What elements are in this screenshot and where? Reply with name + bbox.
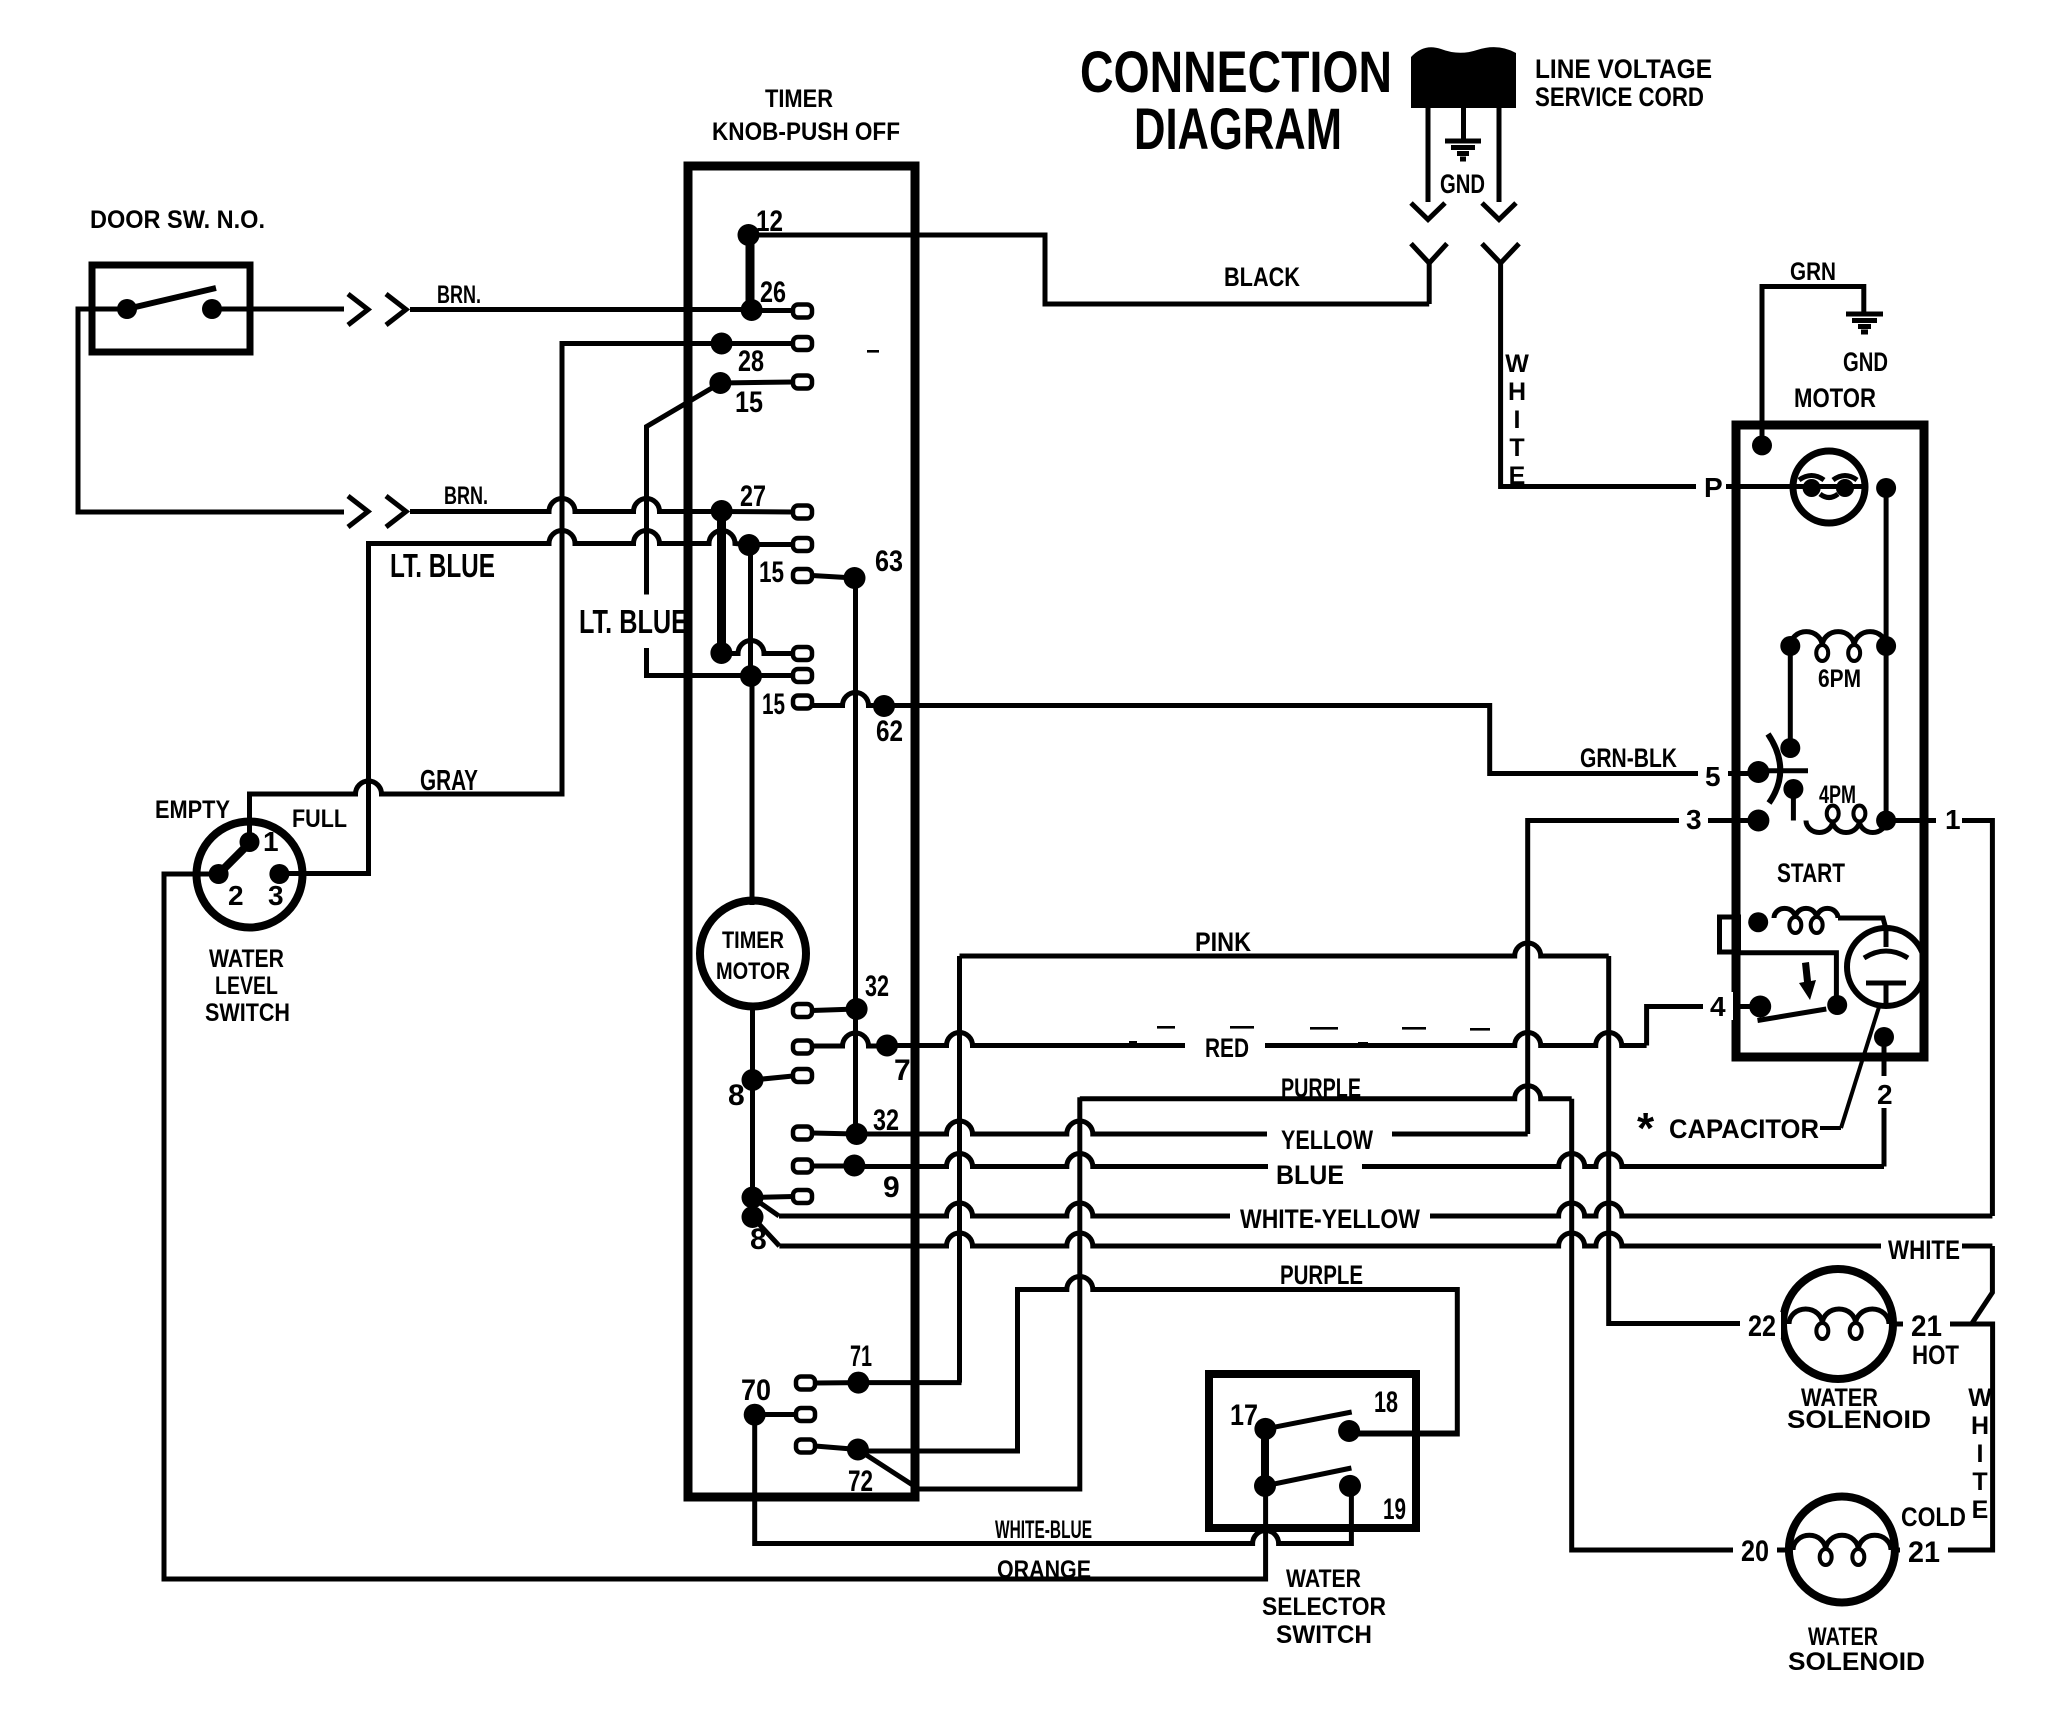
timer box xyxy=(688,166,915,1497)
door switch contact left xyxy=(117,299,137,319)
svg-text:FULL: FULL xyxy=(292,805,347,833)
terminal 71 xyxy=(796,1340,962,1394)
selector arm 17-18 xyxy=(1265,1412,1351,1429)
svg-text:BRN.: BRN. xyxy=(437,281,481,309)
terminal 32 lower xyxy=(793,1104,899,1145)
svg-text:SOLENOID: SOLENOID xyxy=(1788,1648,1925,1676)
wire 72-diagonal to PURPLE upper riser xyxy=(858,1097,1080,1489)
start circle bottom junction xyxy=(1874,1027,1894,1047)
label PINK xyxy=(1195,927,1251,957)
terminal 28 xyxy=(711,333,812,379)
svg-text:20: 20 xyxy=(1741,1535,1769,1568)
label GRN-BLK xyxy=(1580,743,1677,773)
svg-text:WATER: WATER xyxy=(1808,1623,1878,1651)
svg-text:21: 21 xyxy=(1911,1310,1942,1343)
wire 15-diagonal to LT BLUE stub xyxy=(647,383,749,676)
label GND cord xyxy=(1440,169,1485,199)
label CAPACITOR xyxy=(1637,1104,1819,1153)
svg-text:1: 1 xyxy=(263,826,279,857)
label 18 xyxy=(1374,1386,1398,1419)
svg-text:H: H xyxy=(1971,1412,1989,1440)
svg-text:E: E xyxy=(1972,1496,1989,1524)
svg-text:15: 15 xyxy=(759,556,784,589)
label EMPTY xyxy=(155,796,230,824)
svg-text:6PM: 6PM xyxy=(1818,665,1861,693)
water level switch contact 2 xyxy=(209,864,229,884)
wire hot 21 to white xyxy=(1889,1324,1993,1550)
start switch moving contact xyxy=(1827,995,1847,1015)
terminal 9 xyxy=(793,1155,900,1205)
terminal 62 tab xyxy=(762,688,884,721)
switch contact 4pm-side xyxy=(1783,779,1803,821)
label 21 hot gap xyxy=(1903,1310,1950,1343)
label GRAY xyxy=(420,765,478,797)
selector link 17-17 xyxy=(1261,1429,1269,1486)
wire RED 7 to motor 4 xyxy=(887,1007,1757,1046)
svg-text:BLUE: BLUE xyxy=(1276,1160,1344,1190)
connector chevrons BRN2 xyxy=(348,496,406,527)
label WHITE-YELLOW gap xyxy=(1230,1200,1430,1234)
svg-text:BLACK: BLACK xyxy=(1224,262,1300,292)
label contact 1 xyxy=(263,826,279,857)
label GRN xyxy=(1790,258,1836,286)
label RED gap xyxy=(1185,1033,1265,1063)
terminal 63 xyxy=(844,545,904,589)
arrowhead line prong right xyxy=(1482,203,1516,220)
4PM coil xyxy=(1806,806,1896,833)
svg-text:PURPLE: PURPLE xyxy=(1280,1260,1363,1290)
start relay line xyxy=(1738,953,1836,1000)
label YELLOW gap xyxy=(1267,1124,1392,1155)
capacitor pointer xyxy=(1820,1007,1879,1128)
door switch contact right xyxy=(202,299,222,319)
label PURPLE lower xyxy=(1280,1260,1363,1290)
svg-text:28: 28 xyxy=(738,345,764,378)
svg-text:3: 3 xyxy=(268,880,284,911)
motor box xyxy=(1736,425,1924,1057)
start switch pivot arrow xyxy=(1799,962,1816,1000)
svg-text:7: 7 xyxy=(894,1054,911,1087)
water level switch contact 1 xyxy=(240,832,260,852)
svg-text:4PM: 4PM xyxy=(1819,781,1856,809)
label WHITE-BLUE xyxy=(995,1516,1092,1544)
link 12-26 xyxy=(746,235,755,310)
terminal B xyxy=(710,641,812,664)
label BRN upper xyxy=(437,281,481,309)
svg-text:W: W xyxy=(1505,350,1529,378)
label 19 xyxy=(1383,1493,1406,1526)
label PURPLE upper xyxy=(1281,1073,1361,1103)
svg-text:HOT: HOT xyxy=(1912,1340,1959,1370)
motor terminal 5 xyxy=(1747,761,1769,783)
ground symbol service cord xyxy=(1445,141,1481,159)
start switch circle xyxy=(1847,928,1925,1006)
terminal 12 xyxy=(738,205,784,246)
svg-text:I: I xyxy=(1514,406,1521,434)
link timer motor down xyxy=(750,1005,755,1217)
label GND motor xyxy=(1843,347,1888,377)
label WATER SELECTOR SWITCH xyxy=(1262,1565,1386,1649)
svg-text:26: 26 xyxy=(760,276,786,309)
svg-text:GRN-BLK: GRN-BLK xyxy=(1580,743,1677,773)
label LINE VOLTAGE SERVICE CORD xyxy=(1535,54,1712,112)
svg-text:LT. BLUE: LT. BLUE xyxy=(390,547,495,584)
svg-text:I: I xyxy=(1977,1440,1984,1468)
title CONNECTION DIAGRAM xyxy=(1080,40,1392,162)
start switch blade xyxy=(1758,1009,1827,1021)
label contact 3 xyxy=(268,880,284,911)
svg-text:DIAGRAM: DIAGRAM xyxy=(1134,97,1342,162)
svg-text:COLD: COLD xyxy=(1901,1502,1966,1532)
wire WHITE-BLUE 70 to 19 xyxy=(755,1415,1352,1544)
wire BLUE 9 to motor 2 xyxy=(854,1037,1884,1167)
label HOT xyxy=(1912,1340,1959,1370)
motor grn dot xyxy=(1752,435,1772,455)
label 5 gap xyxy=(1698,758,1728,792)
svg-text:WHITE-BLUE: WHITE-BLUE xyxy=(995,1516,1092,1544)
svg-text:15: 15 xyxy=(735,386,763,419)
svg-text:H: H xyxy=(1508,378,1526,406)
svg-text:19: 19 xyxy=(1383,1493,1406,1526)
label WHITE gap xyxy=(1881,1234,1962,1265)
svg-text:*: * xyxy=(1637,1104,1655,1153)
link connector to coils xyxy=(1884,488,1889,821)
door switch box xyxy=(92,265,250,352)
svg-text:GRAY: GRAY xyxy=(420,765,478,797)
terminal 26 xyxy=(741,276,812,321)
motor terminal 4 xyxy=(1749,996,1771,1018)
terminal 15A lt-blue xyxy=(738,534,812,556)
terminal 70 xyxy=(741,1374,815,1426)
label WATER SOLENOID hot xyxy=(1787,1384,1931,1434)
wire WHITE 8 to hot solenoid 21 xyxy=(753,1217,1993,1324)
svg-text:63: 63 xyxy=(875,545,903,578)
receptacle arrow black xyxy=(1411,244,1447,304)
wire WHITE cord-to-P xyxy=(1501,263,1866,486)
wire 62 to GRN-BLK motor 5 xyxy=(884,706,1757,774)
water level switch arm xyxy=(219,842,251,875)
stray scan dashes xyxy=(867,350,1490,1045)
svg-text:GRN: GRN xyxy=(1790,258,1836,286)
motor switch arc xyxy=(1768,734,1780,803)
label 4 gap xyxy=(1703,991,1733,1022)
wire BRN lower to timer 27 xyxy=(410,499,719,512)
capacitor symbol in start circle xyxy=(1864,929,1908,1005)
6PM coil xyxy=(1780,632,1896,661)
connector chevrons BRN1 xyxy=(348,294,406,325)
svg-text:62: 62 xyxy=(876,715,903,748)
water level switch circle xyxy=(197,822,303,928)
selector arm 17-19 xyxy=(1265,1468,1351,1486)
wire water-switch 2 down-left then ORANGE bottom xyxy=(164,874,1266,1579)
svg-text:12: 12 xyxy=(756,205,783,238)
svg-text:T: T xyxy=(1972,1468,1987,1496)
svg-text:5: 5 xyxy=(1705,761,1721,792)
svg-text:32: 32 xyxy=(865,970,889,1003)
svg-text:LINE VOLTAGE: LINE VOLTAGE xyxy=(1535,54,1712,84)
terminal C xyxy=(740,665,812,687)
line voltage service cord plug xyxy=(1411,47,1516,108)
terminal 15 upper xyxy=(709,372,812,419)
label START xyxy=(1777,858,1845,888)
svg-text:EMPTY: EMPTY xyxy=(155,796,230,824)
svg-text:18: 18 xyxy=(1374,1386,1398,1419)
wire LT BLUE contact3 to terminal xyxy=(279,531,745,874)
water selector switch box xyxy=(1209,1374,1416,1528)
hot solenoid circle xyxy=(1783,1269,1893,1379)
wire BRN upper to timer 26 xyxy=(410,307,748,312)
label TIMER KNOB-PUSH OFF xyxy=(712,85,900,146)
svg-text:22: 22 xyxy=(1748,1310,1776,1343)
svg-text:KNOB-PUSH OFF: KNOB-PUSH OFF xyxy=(712,118,900,146)
terminal 32 upper xyxy=(793,970,889,1020)
label COLD xyxy=(1901,1502,1966,1532)
svg-text:DOOR SW. N.O.: DOOR SW. N.O. xyxy=(90,206,265,234)
svg-text:T: T xyxy=(1509,434,1524,462)
svg-text:SOLENOID: SOLENOID xyxy=(1787,1406,1931,1434)
svg-text:MOTOR: MOTOR xyxy=(716,958,790,985)
svg-text:1: 1 xyxy=(1945,804,1961,835)
wire motor 1 to WHITE-YELLOW xyxy=(1886,821,1992,1217)
link C to timer motor xyxy=(750,676,755,905)
terminal 8 mid xyxy=(742,1187,813,1209)
motor connector circle xyxy=(1793,451,1865,523)
svg-text:SELECTOR: SELECTOR xyxy=(1262,1593,1386,1621)
wire PURPLE upper to cold solenoid 20 xyxy=(1080,1086,1790,1550)
svg-text:PURPLE: PURPLE xyxy=(1281,1073,1361,1103)
svg-text:9: 9 xyxy=(883,1171,900,1204)
selector contact 19 xyxy=(1339,1475,1361,1497)
svg-text:72: 72 xyxy=(848,1465,873,1498)
wire GRN ground xyxy=(1762,287,1864,446)
label 21 cold gap xyxy=(1900,1536,1948,1569)
motor junction right of connector xyxy=(1876,478,1896,498)
svg-text:SERVICE CORD: SERVICE CORD xyxy=(1535,82,1704,112)
label WHITE vertical right xyxy=(1968,1384,1992,1524)
wire plug left prong xyxy=(1426,108,1431,202)
label 20 gap xyxy=(1733,1535,1777,1568)
wire door-sw left to BRN2 xyxy=(78,309,344,512)
terminal 27 xyxy=(711,480,812,522)
wire white dash xyxy=(1830,1244,1870,1249)
motor terminal 3 xyxy=(1747,810,1769,832)
svg-text:2: 2 xyxy=(1877,1079,1893,1110)
link 27-down xyxy=(717,511,726,653)
svg-text:2: 2 xyxy=(228,880,244,911)
start connector sub-box xyxy=(1720,917,1739,952)
svg-text:W: W xyxy=(1968,1384,1992,1412)
wire plug middle prong xyxy=(1461,108,1466,139)
wire WHITE-YELLOW 8 to motor 1 xyxy=(753,1198,1993,1217)
svg-text:MOTOR: MOTOR xyxy=(1794,383,1876,413)
door switch arm xyxy=(127,288,216,309)
terminal 72 xyxy=(796,1439,873,1499)
svg-text:TIMER: TIMER xyxy=(722,927,784,954)
link 63-down xyxy=(853,578,858,1134)
svg-text:P: P xyxy=(1704,472,1723,503)
label BLUE gap xyxy=(1268,1156,1362,1190)
label BRN lower xyxy=(444,482,488,510)
svg-text:WHITE-YELLOW: WHITE-YELLOW xyxy=(1240,1204,1420,1234)
switch contact 6pm-side xyxy=(1780,738,1800,758)
label LT. BLUE left xyxy=(390,547,495,584)
wire PINK 71 to hot solenoid 22 xyxy=(960,943,1788,1383)
svg-text:START: START xyxy=(1777,858,1845,888)
label ORANGE xyxy=(997,1556,1091,1584)
wire door-sw right xyxy=(212,307,344,312)
cold solenoid coil xyxy=(1793,1535,1891,1565)
svg-text:SWITCH: SWITCH xyxy=(205,999,290,1027)
selector contact 17 lower xyxy=(1254,1475,1276,1497)
label 17 xyxy=(1230,1399,1258,1432)
label 22 gap xyxy=(1740,1310,1781,1343)
wire plug right prong xyxy=(1497,108,1502,202)
label MOTOR xyxy=(1794,383,1876,413)
wire YELLOW 32 to motor 3 xyxy=(857,821,1757,1135)
svg-text:WATER: WATER xyxy=(209,945,284,973)
label BLACK xyxy=(1224,262,1300,292)
svg-text:17: 17 xyxy=(1230,1399,1258,1432)
label DOOR SW. N.O. xyxy=(90,206,265,234)
label 3 gap xyxy=(1679,804,1708,835)
svg-text:CAPACITOR: CAPACITOR xyxy=(1669,1114,1819,1144)
svg-text:ORANGE: ORANGE xyxy=(997,1556,1091,1584)
terminal 8 lower xyxy=(742,1206,767,1256)
link 6PM to switch xyxy=(1788,646,1793,748)
svg-text:RED: RED xyxy=(1205,1033,1249,1063)
wire GRAY full-contact to 28 xyxy=(250,344,717,842)
label 2 gap xyxy=(1868,1076,1898,1110)
label contact 2 xyxy=(228,880,244,911)
svg-text:GND: GND xyxy=(1843,347,1888,377)
svg-text:CONNECTION: CONNECTION xyxy=(1080,40,1392,105)
receptacle arrow white xyxy=(1482,244,1519,264)
ground symbol motor xyxy=(1846,314,1883,332)
svg-text:3: 3 xyxy=(1686,804,1702,835)
cold solenoid circle xyxy=(1789,1497,1895,1603)
terminal 62 xyxy=(873,695,903,748)
svg-text:SWITCH: SWITCH xyxy=(1276,1621,1372,1649)
svg-text:WHITE: WHITE xyxy=(1888,1235,1960,1265)
svg-text:BRN.: BRN. xyxy=(444,482,488,510)
motor switch bar xyxy=(1760,768,1808,773)
svg-text:LEVEL: LEVEL xyxy=(215,972,278,1000)
wire 72 to PURPLE lower (18) xyxy=(858,1277,1457,1451)
svg-text:TIMER: TIMER xyxy=(765,85,833,113)
label LT. BLUE right xyxy=(579,603,688,640)
selector contact 17 upper xyxy=(1254,1418,1276,1440)
wire BLACK 12-to-cord xyxy=(749,235,1430,304)
link lt-blue down xyxy=(748,545,753,676)
terminal 63 tab xyxy=(759,556,855,589)
svg-text:E: E xyxy=(1509,462,1526,490)
label 1 gap xyxy=(1936,804,1962,835)
svg-text:8: 8 xyxy=(728,1079,745,1112)
svg-text:71: 71 xyxy=(850,1340,872,1373)
svg-text:27: 27 xyxy=(740,480,766,513)
label WHITE vertical cord xyxy=(1505,350,1529,490)
svg-text:15: 15 xyxy=(762,688,785,721)
svg-text:WATER: WATER xyxy=(1286,1565,1361,1593)
arrowhead line prong left xyxy=(1411,203,1445,220)
motor connector dots xyxy=(1799,476,1857,498)
selector contact 18 xyxy=(1338,1420,1457,1442)
svg-text:PINK: PINK xyxy=(1195,927,1251,957)
label P gap xyxy=(1696,471,1726,503)
label WATER SOLENOID cold xyxy=(1788,1623,1925,1676)
start coil xyxy=(1748,908,1886,933)
terminal 8 upper xyxy=(728,1069,812,1112)
svg-text:GND: GND xyxy=(1440,169,1485,199)
label 6PM xyxy=(1818,665,1861,693)
hot solenoid coil xyxy=(1789,1309,1889,1339)
terminal 7 xyxy=(793,1033,911,1087)
svg-text:YELLOW: YELLOW xyxy=(1281,1125,1373,1155)
svg-text:70: 70 xyxy=(741,1374,771,1407)
svg-text:4: 4 xyxy=(1710,991,1726,1022)
label 4PM xyxy=(1819,781,1856,809)
label FULL xyxy=(292,805,347,833)
water level switch contact 3 xyxy=(269,864,289,884)
svg-text:21: 21 xyxy=(1908,1536,1940,1569)
label WATER LEVEL SWITCH xyxy=(205,945,290,1027)
timer motor circle xyxy=(700,901,806,1007)
svg-text:LT. BLUE: LT. BLUE xyxy=(579,603,688,640)
